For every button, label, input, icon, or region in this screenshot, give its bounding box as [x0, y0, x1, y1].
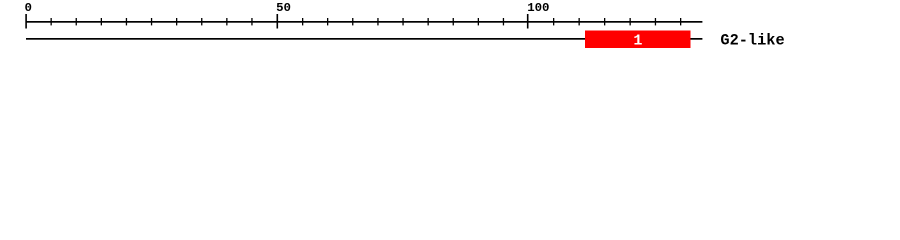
major tick 0 — [25, 14, 27, 29]
domain box — [585, 31, 691, 49]
minor ticks — [51, 18, 682, 25]
svg-text:G2-like: G2-like — [720, 32, 784, 50]
svg-text:1: 1 — [633, 32, 642, 50]
sequence line — [26, 38, 702, 40]
svg-text:100: 100 — [527, 1, 549, 15]
major tick 100 — [527, 14, 529, 29]
major tick 50 — [277, 14, 279, 29]
svg-text:0: 0 — [25, 1, 32, 15]
svg-text:50: 50 — [276, 1, 291, 15]
ruler line — [26, 21, 702, 23]
